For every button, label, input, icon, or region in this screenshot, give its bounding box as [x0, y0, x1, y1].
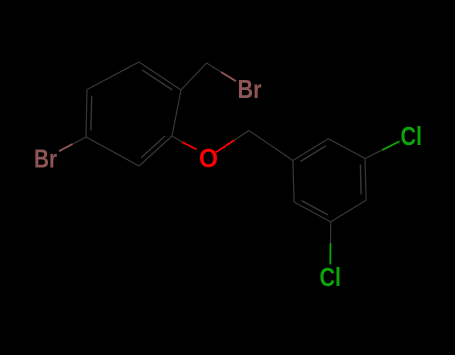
wire bond C5-Cl (chlorine half): [329, 243, 331, 264]
svg-text:Cl: Cl: [320, 262, 342, 292]
wire left ring edge C5-C6: [86, 137, 139, 166]
wire bond C3-CH2: [181, 63, 207, 90]
wire bond C6-Br (carbon half): [73, 137, 87, 144]
wire left ring edge C6-C1: [86, 90, 87, 138]
wire right ring double bond C5-C6: [302, 201, 328, 215]
wire left ring edge C1-C2: [87, 62, 139, 90]
wire left ring edge C4-C5: [139, 136, 172, 166]
svg-text:Br: Br: [238, 74, 262, 104]
wire bond C6-Br (bromine half): [59, 144, 73, 151]
wire bond O-CH2 (carbon half): [235, 131, 250, 141]
wire bond C4-O (oxygen half): [182, 142, 197, 149]
wire right ring edge C1-C2: [293, 139, 328, 161]
wire right ring edge C6-C1: [293, 161, 294, 203]
wire right ring edge C5-C6: [294, 202, 331, 222]
wire right ring edge C2-C3: [328, 139, 365, 159]
wire left ring double bond T-UR: [142, 70, 172, 90]
wire right ring double bond C1-C2: [300, 146, 326, 162]
wire left ring edge C3-C4: [172, 90, 181, 136]
wire left ring edge C2-C3: [139, 62, 181, 90]
wire bond C4-O (carbon half): [172, 136, 182, 142]
wire left ring double bond LR-B: [141, 136, 165, 158]
wire bond C3-Cl (carbon half): [365, 150, 382, 159]
wire bond CH2-Br (bromine half): [221, 72, 236, 81]
wire right ring double bond C3-C4: [359, 165, 362, 195]
svg-text:Cl: Cl: [401, 121, 423, 151]
wire bond CH2-Br (carbon half): [207, 63, 222, 72]
svg-text:O: O: [199, 143, 218, 173]
wire bond O-CH2 (oxygen half): [216, 140, 235, 152]
wire left ring double bond LL-UL: [90, 96, 93, 130]
wire bond C3-Cl (chlorine half): [382, 141, 399, 150]
wire right ring edge C4-C5: [331, 200, 366, 222]
wire bond C5-Cl (carbon half): [330, 222, 332, 243]
wire bond CH2-C1 right ring: [249, 131, 293, 161]
svg-text:Br: Br: [34, 144, 57, 174]
wire right ring edge C3-C4: [365, 159, 366, 201]
